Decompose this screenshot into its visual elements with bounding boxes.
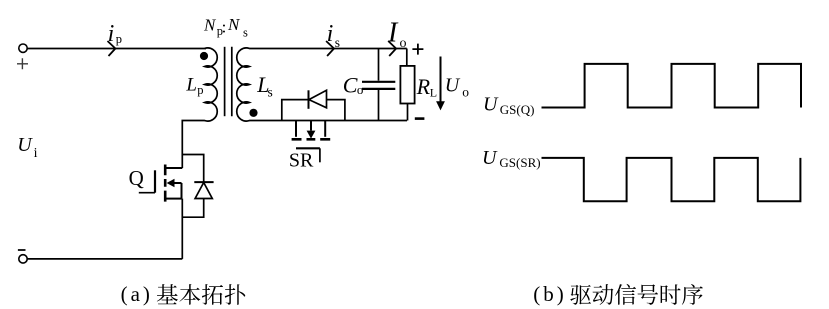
svg-text:s: s (268, 84, 273, 99)
plus sign at input (17, 58, 28, 69)
MOSFET Q gate lead (139, 192, 155, 194)
transformer core line 1 (224, 47, 226, 116)
caption char 驱 (570, 285, 591, 305)
svg-text:C: C (343, 73, 358, 98)
primary dot (phase) (200, 52, 208, 60)
wire secondary top to output (249, 48, 407, 50)
resistor RL body (400, 66, 414, 104)
current arrow i_s (326, 41, 334, 56)
wire bottom-left horizontal (27, 258, 182, 260)
input terminal + (top-left) (19, 44, 27, 52)
SR diode loop wires (282, 100, 345, 121)
svg-text:U: U (445, 75, 461, 97)
minus sign at input (18, 249, 26, 251)
svg-text:i: i (327, 21, 334, 47)
caption char 本 (179, 284, 200, 305)
capacitor Co plate 1 (362, 81, 395, 83)
MOSFET Q body arrow (174, 182, 182, 184)
svg-text:GS(Q): GS(Q) (500, 102, 535, 117)
caption char 信 (615, 284, 636, 305)
svg-text:SR: SR (289, 150, 314, 172)
svg-text:o: o (462, 85, 469, 100)
MOSFET SR source stub (324, 121, 326, 137)
svg-text:N: N (227, 15, 241, 34)
wire top-left horizontal (27, 48, 206, 50)
current arrow i_p (108, 41, 116, 56)
svg-text:i: i (34, 146, 38, 161)
MOSFET SR gate lead (319, 148, 321, 162)
resistor RL lead bottom (407, 104, 409, 121)
svg-text:U: U (482, 147, 498, 169)
svg-text:GS(SR): GS(SR) (499, 155, 540, 170)
transformer primary winding Lp (205, 48, 218, 121)
svg-text:s: s (335, 35, 340, 50)
plus sign at output (412, 44, 423, 55)
svg-text:(b): (b) (533, 282, 567, 306)
svg-text:L: L (430, 86, 437, 100)
svg-text:U: U (483, 94, 499, 116)
MOSFET SR channel bars (292, 138, 331, 141)
MOSFET SR body arrow (310, 121, 312, 131)
resistor RL lead top (406, 49, 408, 66)
caption char 拓 (202, 284, 223, 305)
diode D triangle (195, 183, 212, 199)
svg-text:s: s (243, 26, 248, 40)
waveform U_GS(Q) (542, 64, 802, 108)
current arrow I_o (388, 41, 396, 56)
MOSFET Q gate bar (154, 170, 156, 192)
caption char 动 (593, 284, 614, 305)
svg-text:I: I (387, 17, 399, 48)
svg-text:U: U (17, 134, 33, 156)
waveform U_GS(SR) (542, 158, 801, 201)
transformer core line 2 (231, 47, 233, 116)
diode D (Q body diode) branch wires (182, 155, 203, 218)
svg-text:N: N (203, 16, 217, 35)
caption char 序 (682, 284, 703, 305)
MOSFET Q channel bars (164, 165, 167, 202)
wire primary bottom to Q drain (182, 121, 205, 169)
wire secondary bottom rail (249, 120, 407, 122)
svg-text:p: p (197, 83, 203, 97)
svg-text:R: R (416, 74, 431, 99)
input terminal - (bottom-left) (19, 255, 27, 263)
svg-text:p: p (116, 32, 122, 46)
MOSFET Q body-source tie (181, 183, 183, 199)
MOSFET SR gate bar (296, 147, 320, 149)
arrow Uo (440, 57, 442, 103)
svg-text:(a): (a) (121, 282, 153, 306)
MOSFET Q source wire down (181, 199, 183, 259)
minus sign at output (415, 117, 425, 120)
MOSFET SR drain stub (295, 121, 297, 137)
caption char 基 (157, 284, 178, 304)
transformer secondary winding Ls (237, 48, 250, 121)
capacitor Co plate 2 (362, 88, 395, 90)
MOSFET Q source stub (166, 198, 182, 200)
svg-text::: : (222, 18, 227, 37)
caption char 扑 (225, 284, 245, 305)
MOSFET Q drain stub (166, 167, 182, 169)
SR body diode cathode bar (308, 90, 310, 109)
svg-text:i: i (108, 21, 115, 47)
svg-text:L: L (185, 74, 197, 95)
svg-text:o: o (357, 82, 364, 97)
caption char 时 (661, 284, 681, 304)
capacitor Co top lead (378, 49, 380, 81)
SR body diode triangle (309, 90, 327, 108)
secondary dot (phase) (249, 109, 257, 117)
svg-text:o: o (400, 36, 407, 51)
svg-text:Q: Q (129, 166, 144, 190)
capacitor Co bottom lead (378, 90, 380, 121)
caption char 号 (638, 284, 658, 304)
diode D cathode bar (194, 181, 213, 183)
